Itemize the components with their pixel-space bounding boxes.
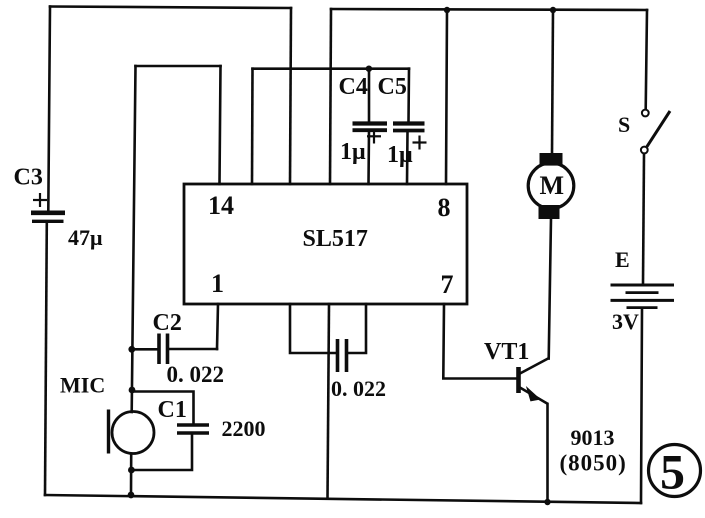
wire pin14 vertical (220, 66, 221, 184)
wire pin1 vertical (217, 304, 218, 349)
figure number 5 (649, 444, 701, 500)
pin 7 label (441, 270, 454, 299)
value label 47u (68, 225, 103, 250)
wire C2 right lead (169, 348, 217, 351)
transistor Q1 VT1 (519, 358, 550, 404)
wire motor top lead (552, 10, 553, 154)
wire left outer vertical upper (48, 7, 50, 212)
wire top rail left (50, 7, 291, 9)
wire inner rail 1 (136, 65, 221, 68)
wire IC bottom to rail (328, 304, 330, 498)
svg-text:1μ: 1μ (387, 142, 413, 168)
wire cap right lead up (349, 304, 367, 353)
value label 1u C4 (340, 139, 366, 165)
wire inner rail 2 (253, 67, 410, 70)
svg-text:VT1: VT1 (484, 339, 529, 365)
svg-text:C4: C4 (339, 74, 368, 100)
value label MIC (60, 373, 105, 398)
value label 0.022 C2 (167, 362, 225, 387)
wire switch to battery (643, 154, 644, 284)
svg-text:(8050): (8050) (560, 451, 627, 476)
wire top rail right (331, 9, 647, 10)
value label C1 (158, 397, 187, 423)
wire vertical rail2 to IC (330, 9, 331, 184)
wire left outer vertical lower (45, 223, 47, 495)
op-amp U1 SL517 IC box (184, 184, 467, 304)
svg-text:2200: 2200 (222, 416, 266, 441)
wire inner left vertical (132, 66, 136, 412)
svg-text:5: 5 (660, 444, 685, 500)
svg-text:9013: 9013 (571, 425, 615, 450)
wire C5 bottom lead (406, 132, 409, 184)
wire bottom rail (45, 495, 641, 503)
svg-text:7: 7 (441, 270, 454, 299)
wire C1 bottom loop (132, 434, 193, 471)
svg-text:1: 1 (211, 269, 224, 298)
svg-text:E: E (615, 247, 630, 272)
capacitor C1 (177, 425, 209, 433)
junction node C4 rail (366, 66, 372, 72)
value label 9013 (571, 425, 615, 450)
svg-text:14: 14 (208, 191, 234, 220)
wire pin2 vertical to cap (290, 304, 335, 353)
capacitor 0.022 under IC (338, 339, 347, 372)
svg-text:0. 022: 0. 022 (167, 362, 225, 387)
wire C2 left lead (132, 348, 157, 351)
wire emitter to rail (546, 404, 549, 502)
wire pin8 vertical (446, 10, 447, 184)
junction node mic bottom rail (128, 492, 135, 499)
svg-text:C1: C1 (158, 397, 187, 423)
wire C4 bottom lead (367, 131, 370, 184)
svg-text:C3: C3 (14, 165, 43, 191)
wire C1 top loop (132, 392, 194, 424)
switch S (641, 110, 670, 154)
svg-text:SL517: SL517 (303, 226, 368, 252)
motor M (528, 153, 574, 219)
value label 3V (612, 309, 639, 334)
svg-text:C2: C2 (153, 310, 182, 336)
battery E (611, 285, 675, 308)
value label 0.022 bottom (331, 376, 386, 401)
junction node C1 top (129, 387, 136, 394)
pin 1 label (211, 269, 224, 298)
pin 8 label (438, 193, 451, 222)
value label 1u C5 (387, 142, 413, 168)
capacitor C5 (393, 124, 427, 150)
wire C5 top lead (407, 69, 410, 122)
svg-text:1μ: 1μ (340, 139, 366, 165)
value label M (540, 171, 565, 200)
value label E (615, 247, 630, 272)
svg-text:M: M (540, 171, 565, 200)
value label C5 (378, 74, 407, 100)
value label 8050 (560, 451, 627, 476)
wire battery to bottom rail (641, 309, 642, 503)
wire motor bottom lead (549, 219, 551, 359)
svg-text:3V: 3V (612, 309, 639, 334)
value label C3 (14, 165, 43, 191)
value label C2 (153, 310, 182, 336)
junction node pin8 top rail (444, 7, 450, 13)
svg-text:C5: C5 (378, 74, 407, 100)
wire rail2-left down to IC top (251, 69, 254, 184)
svg-text:8: 8 (438, 193, 451, 222)
value label SL517 (303, 226, 368, 252)
pin 14 label (208, 191, 234, 220)
wire mic bottom lead (130, 454, 133, 495)
svg-text:S: S (618, 112, 630, 137)
value label 2200 (222, 416, 266, 441)
junction node emitter bottom rail (544, 499, 550, 505)
capacitor C4 (353, 124, 388, 144)
wire pin7 to base (443, 304, 517, 379)
svg-text:0. 022: 0. 022 (331, 376, 386, 401)
value label S (618, 112, 630, 137)
value label C4 (339, 74, 368, 100)
svg-text:47μ: 47μ (68, 225, 103, 250)
wire switch top lead (646, 10, 647, 109)
value label VT1 (484, 339, 529, 365)
svg-text:MIC: MIC (60, 373, 105, 398)
wire C4 top lead (368, 69, 371, 122)
wire rail1 down to IC top (290, 8, 291, 184)
microphone MIC (109, 410, 155, 454)
junction node motor top rail (550, 7, 556, 13)
capacitor C3 (31, 193, 65, 221)
junction node C1 bottom (128, 467, 135, 474)
junction node C2 left (128, 346, 135, 353)
capacitor C2 (159, 334, 168, 365)
